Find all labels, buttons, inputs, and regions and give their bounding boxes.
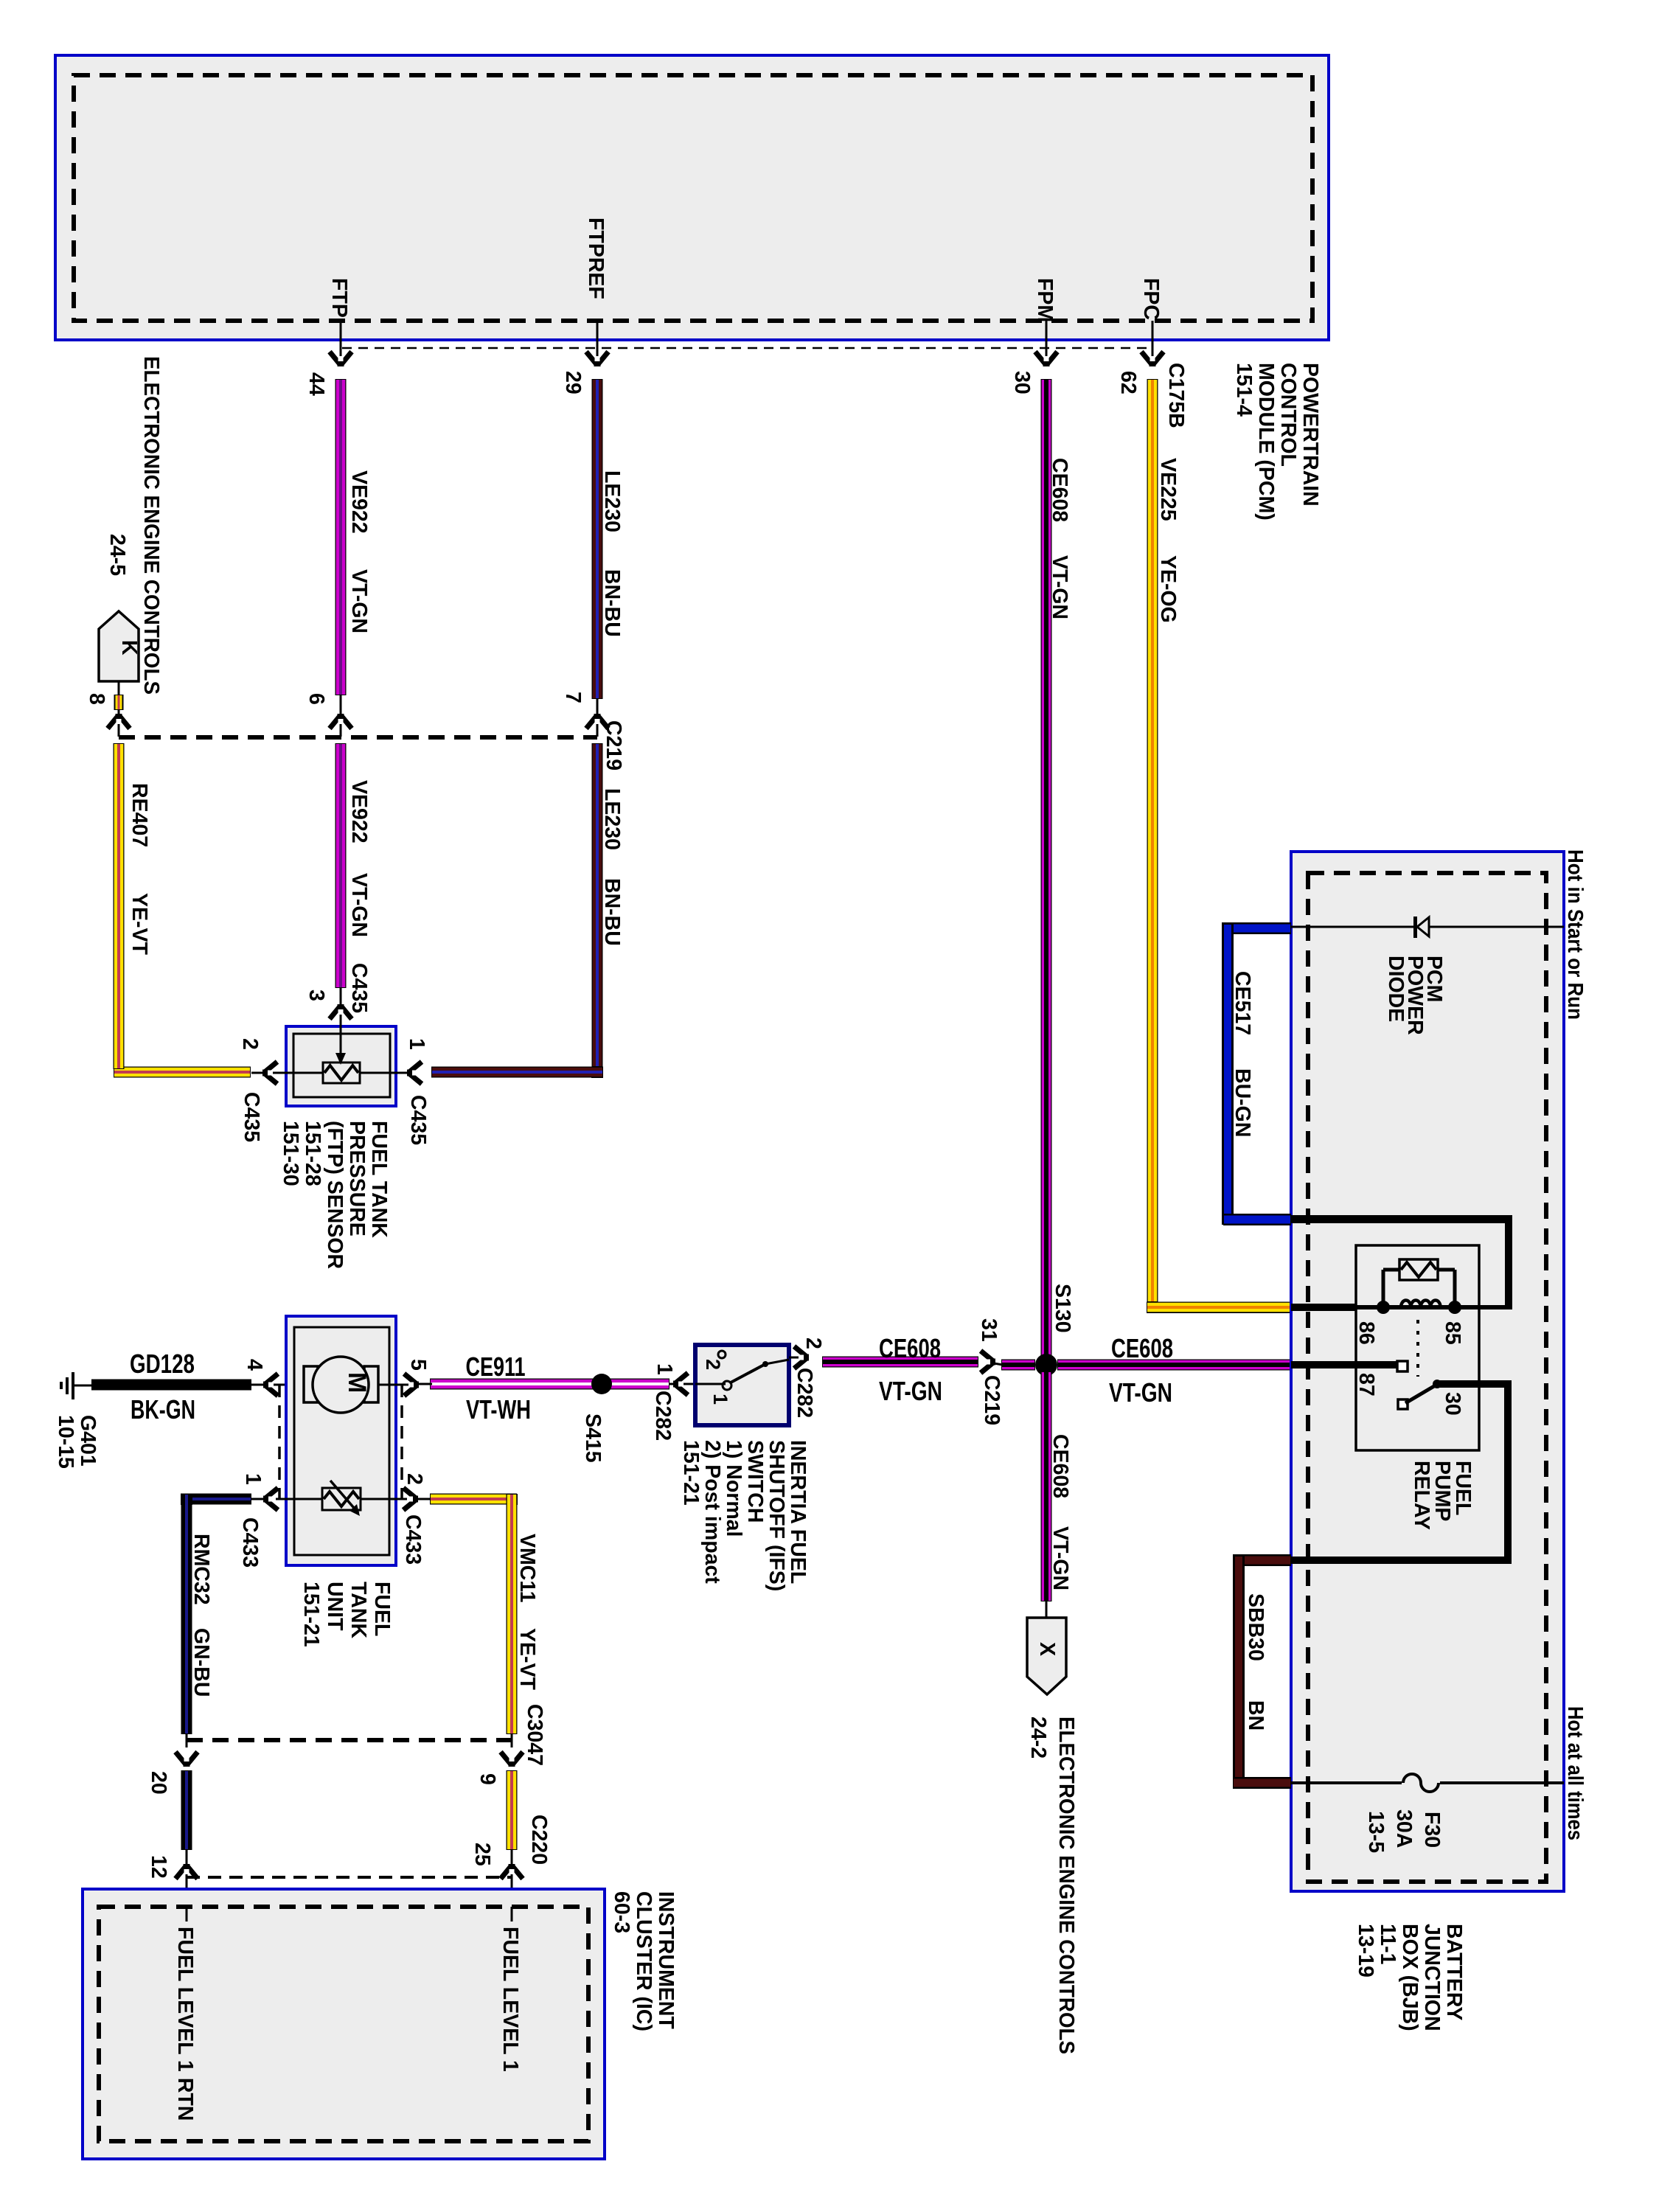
svg-text:C282: C282 <box>793 1368 816 1418</box>
svg-text:9: 9 <box>476 1773 499 1785</box>
svg-text:TANK: TANK <box>347 1582 370 1638</box>
svg-text:C219: C219 <box>602 720 625 771</box>
wire GD128 BK-GN (G401 to fuel tank unit 4) <box>91 1380 251 1391</box>
svg-text:30A: 30A <box>1392 1809 1416 1848</box>
svg-text:151-21: 151-21 <box>299 1582 323 1647</box>
connector C3047 dashed line <box>187 1738 512 1742</box>
svg-text:30: 30 <box>1010 371 1034 394</box>
wire CE608 VT-GN (S130 down to X) <box>1041 1371 1052 1601</box>
FUEL TANK PRESSURE (FTP) SENSOR box <box>286 1026 396 1106</box>
FUEL TANK UNIT box <box>286 1316 396 1565</box>
svg-text:FPM: FPM <box>1033 278 1057 322</box>
svg-text:VMC11: VMC11 <box>515 1534 539 1603</box>
svg-text:VE225: VE225 <box>1156 458 1180 521</box>
svg-text:2: 2 <box>403 1473 426 1485</box>
svg-text:1) Normal: 1) Normal <box>722 1440 745 1537</box>
svg-text:M: M <box>343 1372 371 1393</box>
connector arrow pin 12 (C220) <box>175 1864 198 1879</box>
svg-text:LE230: LE230 <box>600 788 624 850</box>
wire LE230 BN-BU (PCM 29 to C219 7) <box>592 379 603 699</box>
svg-text:FUEL LEVEL 1: FUEL LEVEL 1 <box>498 1927 522 2072</box>
svg-text:FUEL LEVEL 1 RTN: FUEL LEVEL 1 RTN <box>173 1927 197 2121</box>
svg-text:151-4: 151-4 <box>1232 363 1256 417</box>
wire CE608 VT-GN (IFS 2 to C219 31) <box>822 1357 978 1368</box>
svg-text:(FTP) SENSOR: (FTP) SENSOR <box>323 1121 347 1269</box>
wire CE608 VT-GN (PCM 30 to splice S130) <box>1041 379 1052 1365</box>
connector arrow pin 8 (C219) <box>108 714 130 728</box>
fuel level sender (variable resistor) <box>276 1498 407 1500</box>
connector arrow pin 1 (C435) <box>407 1062 422 1084</box>
wire SBB30 BN loop (relay 30 to fuse F30) <box>1233 1554 1291 1566</box>
PCM box: POWERTRAIN CONTROL MODULE <box>55 55 1329 340</box>
wire (CE517 to relay coil 85) <box>1291 1215 1512 1307</box>
PCM power diode <box>1291 926 1564 928</box>
svg-text:VT-GN: VT-GN <box>1048 555 1071 619</box>
svg-text:G401: G401 <box>76 1415 100 1467</box>
svg-text:BOX (BJB): BOX (BJB) <box>1398 1924 1422 2031</box>
INSTRUMENT CLUSTER (IC) box <box>83 1889 605 2159</box>
svg-text:RELAY: RELAY <box>1410 1461 1433 1530</box>
connector arrow pin 9 (C3047) <box>501 1752 523 1767</box>
svg-text:YE-OG: YE-OG <box>1156 555 1180 623</box>
svg-text:24-2: 24-2 <box>1026 1717 1050 1759</box>
wire 20-12 GN-BU (C3047 to C220) <box>181 1770 192 1850</box>
svg-text:RMC32: RMC32 <box>189 1534 213 1605</box>
relay lever to contact 30 <box>1398 1399 1408 1409</box>
svg-text:30: 30 <box>1441 1392 1464 1416</box>
connector arrow pin 1 (C433) <box>263 1488 278 1510</box>
svg-text:VT-GN: VT-GN <box>1048 1526 1072 1590</box>
svg-text:13-19: 13-19 <box>1354 1924 1377 1978</box>
svg-text:CE608: CE608 <box>879 1333 941 1363</box>
svg-text:BN-BU: BN-BU <box>600 878 624 946</box>
svg-text:FTP: FTP <box>327 278 351 318</box>
wire LE230 BN-BU (C219 7 to C435 1) <box>592 743 603 1072</box>
svg-text:RE407: RE407 <box>128 783 151 847</box>
connector C219 dashed line <box>119 735 597 740</box>
relay coil + wire from VE225 86 <box>1291 1304 1356 1311</box>
svg-text:YE-VT: YE-VT <box>515 1628 539 1691</box>
svg-text:GN-BU: GN-BU <box>189 1628 213 1697</box>
svg-text:SHUTOFF (IFS): SHUTOFF (IFS) <box>765 1440 788 1591</box>
svg-text:MODULE (PCM): MODULE (PCM) <box>1254 363 1278 521</box>
fuse F30 30A <box>1291 1781 1402 1784</box>
svg-text:1: 1 <box>709 1394 731 1405</box>
svg-text:VT-GN: VT-GN <box>347 569 371 633</box>
svg-text:S415: S415 <box>581 1413 605 1463</box>
wire RMC32 GN-BU (fuel tank unit 1 to C3047 20) <box>250 1498 263 1500</box>
svg-text:151-30: 151-30 <box>279 1121 302 1186</box>
connector arrow pin 4 (fuel tank unit) <box>263 1374 278 1396</box>
relay contact 87 <box>1291 1361 1399 1368</box>
svg-text:10-15: 10-15 <box>54 1415 77 1469</box>
svg-text:CLUSTER (IC): CLUSTER (IC) <box>632 1891 655 2031</box>
svg-text:S130: S130 <box>1051 1284 1074 1333</box>
svg-text:F30: F30 <box>1420 1812 1444 1848</box>
svg-text:13-5: 13-5 <box>1364 1811 1388 1853</box>
svg-text:UNIT: UNIT <box>323 1582 347 1631</box>
connector arrow pin 29 <box>586 352 608 366</box>
wire VE922 VT-GN (PCM 44 to C219 6) <box>335 379 347 695</box>
svg-text:VT-GN: VT-GN <box>1109 1377 1172 1408</box>
svg-text:20: 20 <box>147 1771 170 1795</box>
svg-text:Hot at all times: Hot at all times <box>1563 1706 1587 1840</box>
svg-text:C433: C433 <box>238 1517 262 1568</box>
connector C175B dashed line <box>342 347 1152 349</box>
svg-text:2: 2 <box>238 1038 262 1050</box>
relay actuation dotted line <box>1416 1320 1419 1377</box>
svg-text:2) Post impact: 2) Post impact <box>700 1440 724 1584</box>
svg-text:VT-WH: VT-WH <box>466 1394 531 1425</box>
FTP sensor resistor <box>323 1062 360 1083</box>
svg-text:BU-GN: BU-GN <box>1231 1068 1254 1137</box>
svg-text:CE608: CE608 <box>1111 1333 1173 1363</box>
C433 dashed connector brackets <box>278 1385 281 1499</box>
wire VE225 YE-OG (PCM 62 to BJB relay 86) <box>1147 379 1158 1302</box>
yellow stub on K lead <box>114 695 124 710</box>
svg-text:FPC: FPC <box>1139 278 1163 320</box>
connector arrow IFS pin 2 (C282) <box>789 1357 809 1359</box>
svg-text:86: 86 <box>1354 1321 1378 1345</box>
wire VMC11 YE-VT (fuel tank unit 2 to C3047 9) <box>418 1498 431 1500</box>
svg-text:INERTIA FUEL: INERTIA FUEL <box>786 1440 810 1584</box>
FTP sensor internal wire and pins <box>251 1072 407 1074</box>
svg-text:Hot in Start or Run: Hot in Start or Run <box>1563 849 1587 1020</box>
splice S415 <box>591 1374 612 1394</box>
svg-text:62: 62 <box>1116 371 1140 394</box>
connector arrow pin 6 (C219) <box>330 714 352 728</box>
svg-text:7: 7 <box>561 692 585 703</box>
svg-text:C3047: C3047 <box>523 1704 546 1766</box>
FUEL PUMP RELAY box <box>1356 1245 1479 1450</box>
svg-text:LE230: LE230 <box>600 470 624 532</box>
svg-text:31: 31 <box>977 1318 1001 1342</box>
svg-text:87: 87 <box>1354 1373 1378 1397</box>
svg-text:1: 1 <box>405 1038 428 1050</box>
wire CE517 BU-GN loop (diode to relay 85) <box>1223 922 1291 934</box>
svg-text:BATTERY: BATTERY <box>1442 1924 1466 2020</box>
connector arrow pin 30 <box>1035 352 1057 366</box>
svg-text:C175B: C175B <box>1164 363 1188 428</box>
svg-text:ELECTRONIC ENGINE CONTROLS: ELECTRONIC ENGINE CONTROLS <box>1054 1717 1078 2054</box>
connector arrow pin 7 (C219) <box>586 714 608 728</box>
svg-text:6: 6 <box>305 693 328 705</box>
wire 9-25 YE-VT (C3047 to C220) <box>507 1770 518 1850</box>
connector arrow pin 44 <box>330 352 352 366</box>
svg-text:K: K <box>117 640 141 655</box>
svg-text:8: 8 <box>85 693 108 705</box>
svg-text:ELECTRONIC ENGINE CONTROLS: ELECTRONIC ENGINE CONTROLS <box>139 356 163 695</box>
svg-text:C435: C435 <box>240 1092 263 1142</box>
svg-text:BN: BN <box>1244 1700 1267 1731</box>
svg-text:SWITCH: SWITCH <box>743 1440 767 1523</box>
svg-text:12: 12 <box>147 1855 170 1879</box>
svg-text:44: 44 <box>305 372 328 396</box>
connector K (to 24-5) <box>99 611 139 681</box>
svg-text:PRESSURE: PRESSURE <box>345 1121 369 1237</box>
svg-text:CE608: CE608 <box>1048 458 1071 522</box>
connector arrow pin 2 (C433) <box>403 1488 418 1510</box>
INERTIA FUEL SHUTOFF (IFS) SWITCH box <box>695 1345 789 1425</box>
svg-text:VT-GN: VT-GN <box>347 873 371 937</box>
svg-text:FUEL: FUEL <box>370 1582 394 1636</box>
svg-text:C220: C220 <box>527 1815 551 1865</box>
svg-text:CE608: CE608 <box>1048 1434 1072 1498</box>
IC pin FUEL LEVEL 1 RTN <box>186 1907 188 1921</box>
wire relay 30 to SBB30 <box>1291 1380 1512 1564</box>
connector arrow pin 5 (fuel tank unit) <box>378 1384 419 1386</box>
svg-text:C435: C435 <box>406 1095 430 1145</box>
svg-text:60-3: 60-3 <box>610 1891 633 1933</box>
svg-text:YE-VT: YE-VT <box>128 893 151 956</box>
svg-text:151-28: 151-28 <box>301 1121 324 1186</box>
coil bumps <box>1401 1301 1441 1308</box>
connector arrow IFS pin 1 (C282) <box>673 1373 688 1395</box>
wire CE911 VT-WH (fuel tank unit 5 to IFS 1) <box>430 1379 669 1390</box>
svg-text:151-21: 151-21 <box>679 1440 703 1506</box>
connector C220 dashed line <box>187 1876 512 1879</box>
svg-text:1: 1 <box>653 1363 676 1375</box>
svg-text:3: 3 <box>305 990 328 1001</box>
svg-text:POWERTRAIN: POWERTRAIN <box>1298 363 1322 507</box>
svg-text:2: 2 <box>801 1338 825 1349</box>
svg-text:2: 2 <box>702 1359 724 1370</box>
svg-text:24-5: 24-5 <box>105 534 129 576</box>
svg-text:VE922: VE922 <box>347 780 371 844</box>
svg-text:C435: C435 <box>347 963 371 1013</box>
wire CE608 stub to S130 <box>1001 1360 1035 1371</box>
svg-text:CE911: CE911 <box>466 1352 526 1382</box>
svg-text:85: 85 <box>1441 1321 1464 1345</box>
connector arrow pin 3 (C435) <box>330 1004 352 1019</box>
svg-text:CONTROL: CONTROL <box>1276 363 1300 467</box>
wire RE407 YE-VT (C219 8 to FTP sensor 2) <box>114 743 125 1067</box>
svg-text:SBB30: SBB30 <box>1244 1593 1267 1661</box>
connector arrow pin 62 (C175B) <box>1141 352 1164 366</box>
connector arrow pin 2 (C435) <box>262 1062 277 1084</box>
svg-text:5: 5 <box>406 1359 430 1371</box>
wire CE608 VT-GN (S130 to fuel pump relay 87) <box>1057 1360 1291 1371</box>
ground G401 <box>72 1372 74 1399</box>
svg-text:VT-GN: VT-GN <box>879 1376 942 1406</box>
svg-text:C219: C219 <box>980 1375 1004 1425</box>
svg-text:C282: C282 <box>651 1391 675 1441</box>
connector arrow pin 31 (C219) <box>981 1351 995 1373</box>
svg-text:X: X <box>1035 1642 1059 1656</box>
svg-text:FTPREF: FTPREF <box>584 218 608 299</box>
BATTERY JUNCTION BOX (BJB) <box>1291 852 1564 1891</box>
svg-text:INSTRUMENT: INSTRUMENT <box>654 1891 678 2029</box>
svg-text:1: 1 <box>241 1473 265 1485</box>
IFS internal switch <box>695 1383 726 1385</box>
PCM inner dashed boundary <box>74 75 1312 321</box>
svg-text:FUEL TANK: FUEL TANK <box>367 1121 391 1238</box>
relay suppression resistor <box>1382 1270 1385 1307</box>
svg-text:JUNCTION: JUNCTION <box>1420 1924 1444 2031</box>
connector arrow pin 25 (C220) <box>501 1864 523 1879</box>
connector arrow pin 20 (C3047) <box>175 1752 198 1767</box>
svg-text:11-1: 11-1 <box>1376 1924 1399 1965</box>
svg-text:DIODE: DIODE <box>1384 956 1408 1022</box>
svg-text:CE517: CE517 <box>1231 971 1254 1035</box>
fuel pump motor M <box>304 1384 378 1386</box>
svg-text:4: 4 <box>243 1359 266 1371</box>
svg-text:GD128: GD128 <box>130 1349 195 1379</box>
svg-text:BK-GN: BK-GN <box>131 1394 195 1425</box>
IC pin FUEL LEVEL 1 <box>511 1907 513 1921</box>
svg-text:VE922: VE922 <box>347 470 371 534</box>
wire VE922 VT-GN (C219 6 to C435 3) <box>335 743 347 988</box>
svg-text:29: 29 <box>561 371 585 394</box>
svg-text:25: 25 <box>470 1843 494 1866</box>
connector X (to 24-2) <box>1027 1618 1066 1694</box>
svg-text:BN-BU: BN-BU <box>600 569 624 637</box>
svg-text:C433: C433 <box>401 1514 425 1565</box>
